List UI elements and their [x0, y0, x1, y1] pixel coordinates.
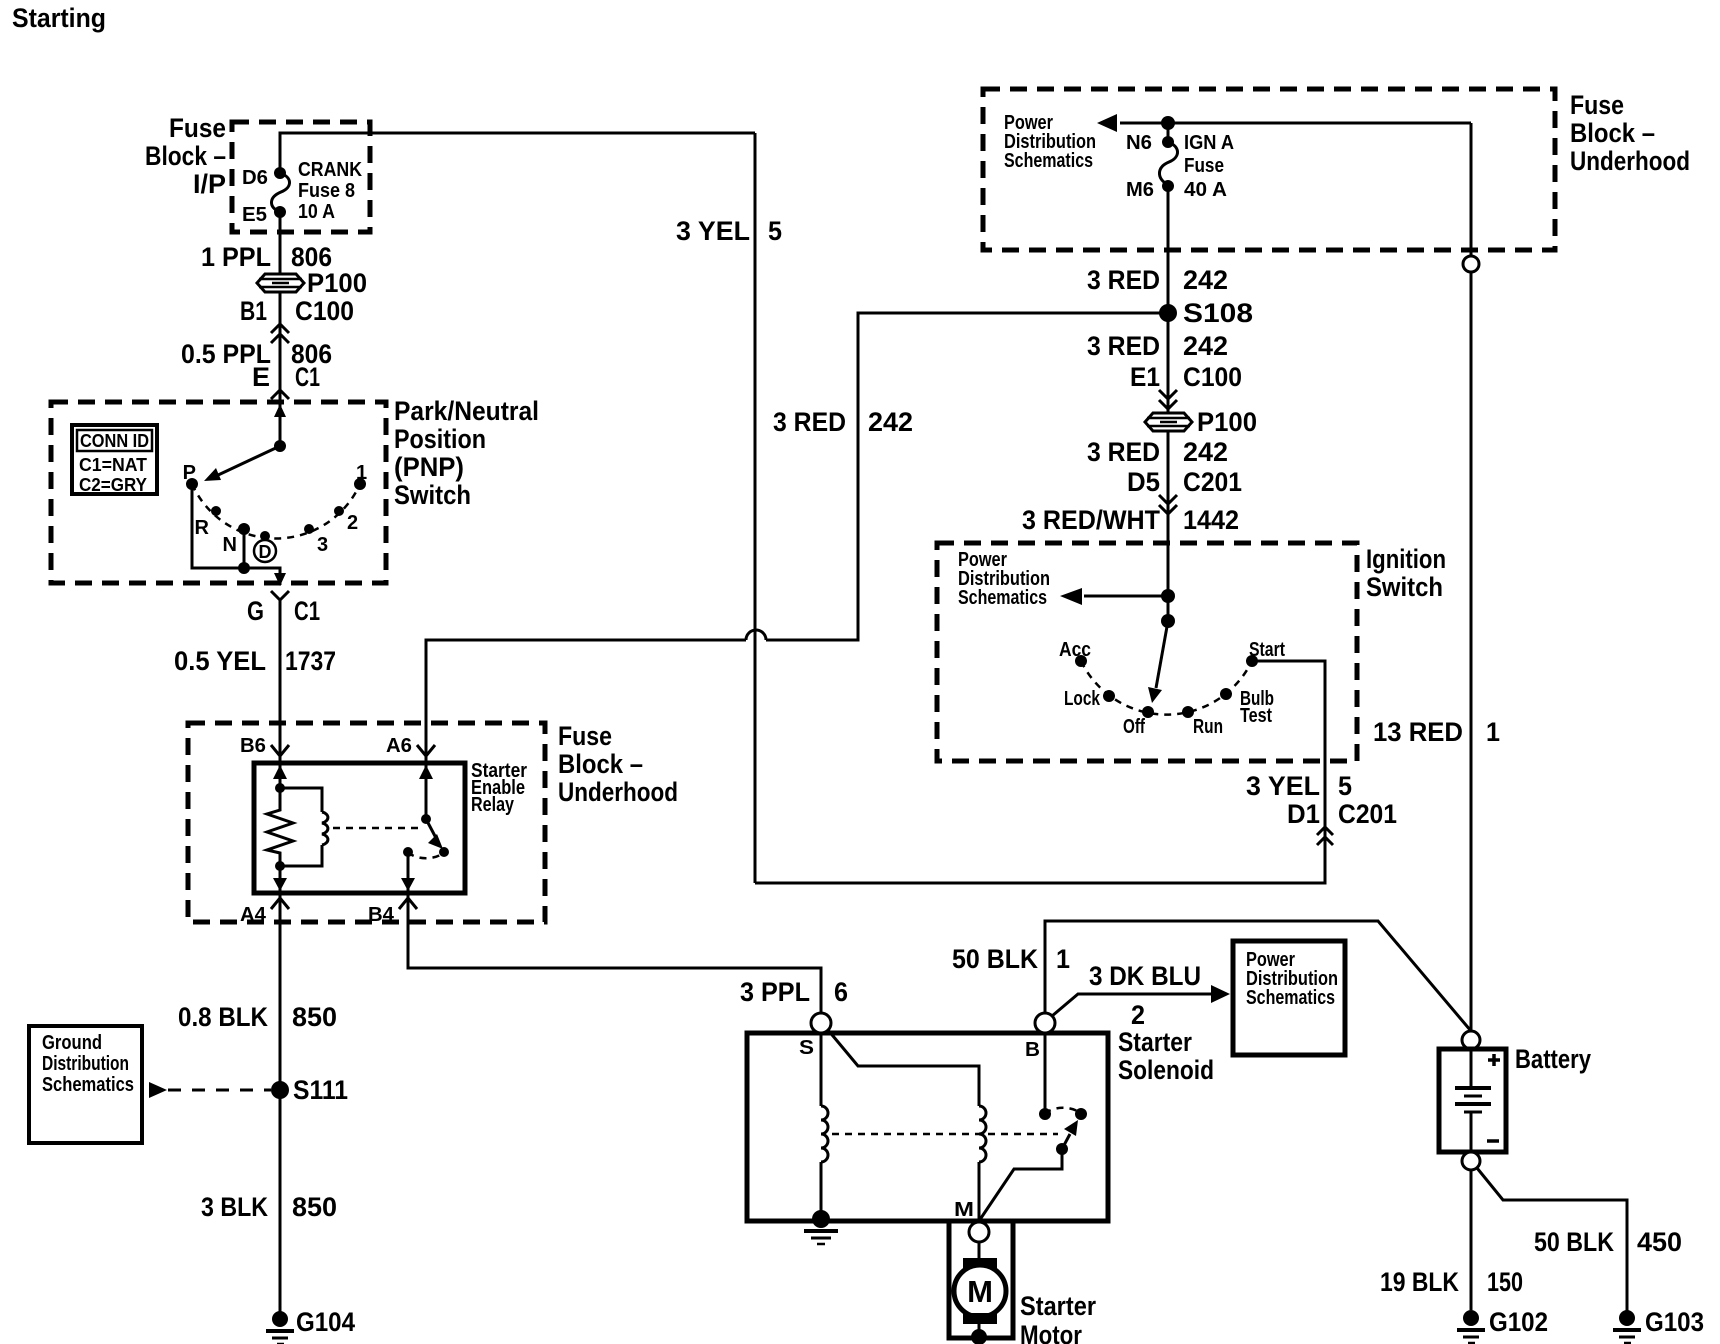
- svg-text:Block –: Block –: [1570, 118, 1655, 148]
- wire 50 BLK 450 to G103: [1477, 1168, 1627, 1311]
- svg-text:242: 242: [868, 407, 913, 437]
- relay link dashed: [333, 827, 420, 830]
- svg-text:S108: S108: [1183, 298, 1253, 328]
- svg-text:Solenoid: Solenoid: [1118, 1055, 1214, 1085]
- ground G104: [266, 1307, 355, 1344]
- svg-text:50 BLK: 50 BLK: [952, 944, 1038, 974]
- svg-text:B4: B4: [368, 904, 395, 926]
- relay dashed contact arc: [408, 852, 444, 858]
- svg-text:19 BLK: 19 BLK: [1380, 1267, 1459, 1297]
- PNP contact R: [211, 506, 221, 516]
- battery terminal + circle: [1462, 1031, 1480, 1049]
- power distribution schematics box (right): [1233, 941, 1345, 1055]
- svg-text:G104: G104: [296, 1307, 355, 1337]
- svg-text:P: P: [183, 462, 196, 484]
- PNP switch dashed box: [51, 402, 386, 583]
- connector ring on 13 RED: [1463, 256, 1479, 272]
- connector C201 chevrons down: [1159, 495, 1177, 514]
- svg-text:Fuse: Fuse: [1570, 90, 1624, 120]
- svg-text:0.5 YEL: 0.5 YEL: [174, 646, 266, 676]
- terminal M circle: [969, 1222, 989, 1242]
- svg-text:3 RED: 3 RED: [1087, 437, 1160, 467]
- Park/Neutral Position (PNP) Switch label: [394, 396, 539, 510]
- svg-text:Switch: Switch: [1366, 572, 1443, 602]
- PNP contact 3: [304, 524, 314, 534]
- resistor R relay: [267, 788, 293, 866]
- PNP contact N: [238, 523, 250, 535]
- PNP wiper arm arrow: [216, 446, 280, 476]
- node N junction: [238, 562, 250, 574]
- svg-text:13 RED: 13 RED: [1373, 717, 1463, 747]
- ignition position arc dashed: [1081, 661, 1252, 715]
- fuse block I/P dashed box: [232, 122, 370, 232]
- ignition switch dashed box: [937, 543, 1357, 761]
- arrow out of PNP switch: [274, 573, 286, 586]
- svg-text:Fuse: Fuse: [169, 113, 226, 143]
- svg-text:3 RED: 3 RED: [1087, 265, 1160, 295]
- svg-text:Motor: Motor: [1020, 1320, 1082, 1344]
- svg-text:N6: N6: [1126, 132, 1152, 154]
- label Starter Motor: [1020, 1291, 1096, 1344]
- svg-text:3 RED/WHT: 3 RED/WHT: [1022, 505, 1160, 535]
- solenoid B contact wire: [1044, 1033, 1047, 1114]
- wire M6 down to ignition switch: [1167, 186, 1170, 413]
- node E5: [274, 206, 286, 218]
- svg-text:Schematics: Schematics: [1246, 987, 1335, 1009]
- svg-text:Underhood: Underhood: [1570, 146, 1690, 176]
- connector C100 chevrons down: [1159, 390, 1177, 409]
- wire B4 contact down: [407, 852, 410, 893]
- ground G103: [1613, 1307, 1704, 1343]
- svg-text:B: B: [1025, 1039, 1040, 1061]
- svg-text:Acc: Acc: [1059, 639, 1091, 661]
- wire relay coil branch: [279, 763, 282, 800]
- svg-text:G: G: [247, 596, 264, 626]
- node relay coil bottom: [275, 861, 285, 871]
- node arm pivot: [1056, 1143, 1068, 1155]
- fuse block underhood top dashed box: [983, 89, 1555, 250]
- svg-text:C1=NAT: C1=NAT: [79, 455, 147, 475]
- ignition contact Lock: [1103, 690, 1115, 702]
- battery plus mark: [1488, 1054, 1500, 1066]
- node N6: [1162, 136, 1174, 148]
- solenoid link dashed: [832, 1133, 1058, 1136]
- svg-text:242: 242: [1183, 331, 1228, 361]
- terminal S circle: [811, 1013, 831, 1033]
- svg-text:CONN ID: CONN ID: [80, 431, 149, 451]
- svg-text:P100: P100: [307, 268, 367, 298]
- CONN ID table: [72, 425, 157, 495]
- wire ignition feed branch with arrow: [1084, 595, 1168, 598]
- svg-text:E1: E1: [1130, 362, 1160, 392]
- wire G C1 down to relay B6: [279, 598, 282, 763]
- svg-text:Fuse: Fuse: [1184, 155, 1224, 177]
- svg-text:A6: A6: [386, 735, 412, 757]
- PNP position labels: [183, 462, 367, 556]
- wire P contact to PNP output: [192, 484, 280, 585]
- svg-text:G103: G103: [1645, 1307, 1704, 1337]
- svg-text:C201: C201: [1338, 799, 1397, 829]
- svg-text:Schematics: Schematics: [958, 587, 1047, 609]
- solenoid internal ground: [804, 1210, 838, 1244]
- wire P100 down into ignition switch: [1167, 431, 1170, 621]
- svg-text:C100: C100: [1183, 362, 1242, 392]
- solenoid switch arm: [1062, 1134, 1070, 1149]
- svg-text:S: S: [799, 1037, 814, 1059]
- wire E5 down to P100: [279, 212, 282, 276]
- svg-text:Block –: Block –: [558, 749, 643, 779]
- battery box: [1439, 1049, 1506, 1152]
- svg-text:D: D: [259, 542, 272, 562]
- relay switch pin wire: [425, 763, 428, 819]
- connector B6 chevron: [271, 745, 289, 756]
- node motor case: [971, 1329, 987, 1344]
- wire arm to M: [979, 1149, 1062, 1221]
- svg-text:3 DK BLU: 3 DK BLU: [1089, 961, 1201, 991]
- wire 3 DK BLU with arrow: [1052, 994, 1213, 1016]
- svg-text:Battery: Battery: [1515, 1044, 1591, 1074]
- PNP contact 2: [334, 506, 344, 516]
- wire 19 BLK to G102: [1470, 1170, 1473, 1310]
- ground distribution schematics box: [29, 1026, 142, 1143]
- svg-text:Underhood: Underhood: [558, 777, 678, 807]
- svg-text:C1: C1: [294, 596, 320, 626]
- wire M to brush: [978, 1242, 981, 1259]
- solenoid hold-in winding: [821, 1033, 828, 1219]
- relay switch arm: [426, 819, 436, 838]
- grommet P100: [257, 268, 367, 298]
- svg-text:Run: Run: [1193, 716, 1223, 738]
- arrow into PNP switch: [274, 404, 286, 417]
- node relay switch pivot: [421, 814, 431, 824]
- starter motor M symbol: [954, 1258, 1006, 1324]
- svg-text:150: 150: [1487, 1267, 1523, 1297]
- svg-text:1737: 1737: [285, 646, 336, 676]
- label Starter Solenoid: [1118, 1027, 1214, 1085]
- svg-text:450: 450: [1637, 1227, 1682, 1257]
- fuse block underhood (relay) dashed box: [188, 723, 545, 922]
- svg-text:1 PPL: 1 PPL: [201, 242, 271, 272]
- wire A4 down to G104: [279, 893, 282, 1312]
- grommet P100 (right): [1145, 407, 1257, 437]
- svg-text:Ground: Ground: [42, 1032, 102, 1054]
- connector C1 chevron: [271, 390, 289, 399]
- svg-text:C2=GRY: C2=GRY: [79, 475, 147, 495]
- svg-text:2: 2: [1131, 1000, 1145, 1030]
- svg-text:M6: M6: [1126, 179, 1154, 201]
- svg-text:Relay: Relay: [471, 794, 515, 816]
- svg-text:E: E: [252, 362, 270, 392]
- svg-text:5: 5: [768, 216, 782, 246]
- connector D1 C201 chevrons: [1317, 827, 1333, 845]
- svg-text:R: R: [195, 517, 210, 539]
- relay coil pin arrow down: [273, 878, 287, 891]
- fuse IGN A 40 A: [1159, 142, 1177, 185]
- svg-text:S111: S111: [293, 1075, 348, 1105]
- svg-text:P100: P100: [1197, 407, 1257, 437]
- svg-text:Test: Test: [1240, 705, 1272, 727]
- svg-text:Fuse: Fuse: [558, 721, 612, 751]
- wire power feed with arrow: [1120, 122, 1471, 125]
- ignition contact Run: [1182, 706, 1194, 718]
- label Starter Enable Relay: [471, 760, 527, 816]
- svg-text:D1: D1: [1287, 799, 1320, 829]
- label Fuse Block - Underhood (relay): [558, 721, 678, 807]
- ignition contact Bulb Test: [1220, 688, 1232, 700]
- dashed reference wire to S111: [168, 1089, 271, 1092]
- node ignition feed: [1161, 589, 1175, 603]
- terminal B circle: [1035, 1013, 1055, 1033]
- svg-text:40 A: 40 A: [1184, 179, 1227, 201]
- relay B4 pin arrow down: [401, 878, 415, 891]
- ground G102: [1457, 1307, 1548, 1343]
- svg-text:B6: B6: [240, 735, 266, 757]
- circled D indicator: [254, 540, 276, 562]
- wire 50 BLK battery to solenoid B: [1045, 921, 1471, 1031]
- svg-text:50 BLK: 50 BLK: [1534, 1227, 1614, 1257]
- node IGN A tap: [1161, 116, 1175, 130]
- label Fuse Block - I/P: [145, 113, 226, 199]
- PNP contact 1: [354, 478, 366, 490]
- labels N6 M6 IGN A Fuse 40 A: [1126, 132, 1234, 201]
- node S111: [271, 1081, 289, 1099]
- svg-text:Distribution: Distribution: [42, 1053, 129, 1075]
- node relay coil top: [275, 783, 285, 793]
- svg-text:850: 850: [292, 1002, 337, 1032]
- svg-text:Lock: Lock: [1064, 688, 1101, 710]
- ignition contact Off: [1142, 706, 1154, 718]
- svg-text:1: 1: [356, 462, 367, 484]
- wire N contact down: [243, 529, 246, 568]
- svg-text:Fuse 8: Fuse 8: [298, 180, 355, 202]
- ignition position labels: [1059, 639, 1285, 738]
- svg-text:C100: C100: [295, 296, 354, 326]
- svg-text:3 RED: 3 RED: [1087, 331, 1160, 361]
- battery terminal - circle: [1462, 1152, 1480, 1170]
- svg-text:CRANK: CRANK: [298, 159, 362, 181]
- ignition wiper arm arrow: [1156, 621, 1168, 688]
- PNP position arc dashed: [192, 484, 360, 538]
- svg-text:D5: D5: [1127, 467, 1160, 497]
- wire resistor bottom: [279, 856, 282, 893]
- relay coil L1: [280, 788, 322, 812]
- svg-text:242: 242: [1183, 265, 1228, 295]
- svg-text:Position: Position: [394, 424, 486, 454]
- svg-text:B1: B1: [240, 296, 267, 326]
- svg-text:Schematics: Schematics: [1004, 150, 1093, 172]
- node relay B4 contact: [403, 847, 413, 857]
- solenoid pull-in winding: [828, 1030, 986, 1221]
- svg-text:Park/Neutral: Park/Neutral: [394, 396, 539, 426]
- svg-text:M: M: [967, 1274, 993, 1309]
- svg-text:242: 242: [1183, 437, 1228, 467]
- relay coil pin arrow up: [273, 765, 287, 779]
- svg-text:5: 5: [1338, 771, 1352, 801]
- svg-text:3 RED: 3 RED: [773, 407, 846, 437]
- svg-text:C1: C1: [295, 362, 320, 392]
- wire S108 to relay A6 with hop: [766, 313, 1160, 640]
- svg-text:1: 1: [1056, 944, 1070, 974]
- starter enable relay box: [254, 763, 465, 893]
- node ignition wiper pivot: [1161, 614, 1175, 628]
- node PNP wiper junction: [274, 440, 286, 452]
- svg-text:10 A: 10 A: [298, 201, 335, 223]
- svg-text:2: 2: [347, 512, 358, 534]
- node D6: [274, 167, 286, 179]
- wire P100 to connector C100: [279, 292, 282, 446]
- node B contact: [1039, 1108, 1051, 1120]
- connector C100 chevrons: [271, 324, 289, 343]
- svg-text:Switch: Switch: [394, 480, 471, 510]
- connector A4 chevron: [271, 898, 289, 909]
- svg-text:3 YEL: 3 YEL: [1246, 771, 1320, 801]
- node S108: [1159, 304, 1177, 322]
- starter solenoid box: [747, 1033, 1108, 1221]
- node relay arm end: [439, 847, 449, 857]
- wire 3 YEL bottom run to D1: [755, 661, 1325, 883]
- node M6: [1162, 180, 1174, 192]
- label Fuse Block - Underhood (top): [1570, 90, 1690, 176]
- svg-text:Starter: Starter: [1118, 1027, 1192, 1057]
- svg-text:850: 850: [292, 1192, 337, 1222]
- svg-text:1442: 1442: [1183, 505, 1239, 535]
- svg-text:(PNP): (PNP): [394, 452, 464, 482]
- svg-text:N: N: [223, 534, 237, 556]
- relay switch pin arrow up: [419, 765, 433, 779]
- PNP contact P: [186, 478, 198, 490]
- label Power Distribution Schematics (top): [1004, 112, 1096, 172]
- starter motor box: [949, 1221, 1013, 1338]
- ignition contact Start: [1246, 655, 1258, 667]
- connector B4 chevron: [399, 898, 417, 909]
- svg-text:Block –: Block –: [145, 141, 226, 171]
- solenoid dashed contact arc: [1045, 1108, 1081, 1114]
- wire tap to N6: [1167, 123, 1170, 142]
- svg-text:IGN A: IGN A: [1184, 132, 1234, 154]
- svg-text:0.8 BLK: 0.8 BLK: [178, 1002, 268, 1032]
- svg-text:3: 3: [317, 534, 328, 556]
- label Power Distribution Schematics (ignition): [958, 549, 1050, 609]
- svg-text:M: M: [954, 1199, 974, 1221]
- svg-text:A4: A4: [240, 904, 267, 926]
- svg-text:Schematics: Schematics: [42, 1074, 134, 1096]
- wire brush to case: [978, 1324, 981, 1337]
- svg-text:Off: Off: [1123, 716, 1145, 738]
- svg-text:Start: Start: [1249, 639, 1285, 661]
- battery cell symbol: [1455, 1049, 1491, 1152]
- svg-text:1: 1: [1486, 717, 1500, 747]
- svg-text:I/P: I/P: [193, 169, 226, 199]
- svg-text:C201: C201: [1183, 467, 1242, 497]
- battery minus mark: [1487, 1139, 1499, 1143]
- svg-text:6: 6: [834, 977, 848, 1007]
- svg-text:E5: E5: [242, 204, 267, 226]
- svg-text:Starter: Starter: [1020, 1291, 1096, 1321]
- wire B4 to solenoid S: [408, 893, 821, 1013]
- svg-text:3 BLK: 3 BLK: [201, 1192, 268, 1222]
- wire right 13 RED drop: [1470, 123, 1473, 1031]
- connector G C1 chevron: [271, 591, 289, 600]
- wire 3 YEL riser: [754, 133, 757, 883]
- wire fuse block I/P top to 3 YEL riser: [280, 133, 755, 172]
- label Ignition Switch: [1366, 544, 1446, 602]
- svg-text:3 YEL: 3 YEL: [676, 216, 750, 246]
- svg-text:Starting: Starting: [12, 3, 106, 33]
- svg-text:3 PPL: 3 PPL: [740, 977, 810, 1007]
- svg-text:Ignition: Ignition: [1366, 544, 1446, 574]
- svg-text:G102: G102: [1489, 1307, 1548, 1337]
- PNP contact D: [260, 531, 270, 541]
- connector A6 chevron: [417, 745, 435, 756]
- node moving contact: [1075, 1108, 1087, 1120]
- ignition contact Acc: [1075, 655, 1087, 667]
- svg-text:D6: D6: [242, 167, 268, 189]
- fuse CRANK Fuse 8 10 A: [271, 173, 289, 212]
